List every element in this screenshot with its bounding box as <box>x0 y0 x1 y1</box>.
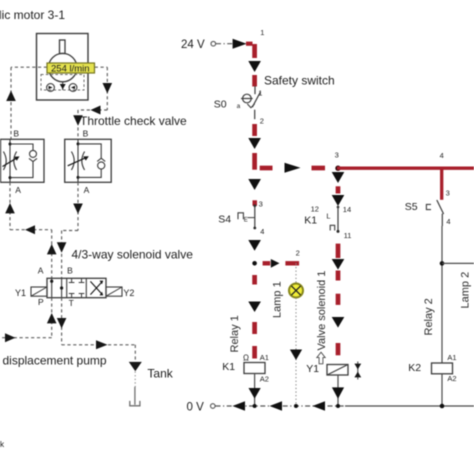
svg-text:Relay 2: Relay 2 <box>423 298 435 335</box>
energized wire S0 to junction <box>252 124 257 170</box>
4/3 valve center position blocked ports <box>69 278 85 297</box>
rotated label Relay 1 <box>229 315 241 352</box>
svg-text:2: 2 <box>296 249 300 258</box>
wire lamp 1 to 0V bus <box>295 298 297 406</box>
energized wire S4 to junction 2 <box>248 240 261 251</box>
wire right valve A down <box>77 182 79 230</box>
indicator lamp 1 <box>289 284 303 298</box>
text Safety switch <box>264 73 335 87</box>
emergency stop switch S0 <box>241 86 260 119</box>
hydraulic motor drain box <box>41 75 84 91</box>
svg-text:L: L <box>326 212 330 221</box>
flow arrow down below lamp 1 <box>290 350 302 361</box>
svg-text:T: T <box>69 298 74 308</box>
flow arrow up on left motor line <box>6 91 16 101</box>
flow arrow down on B riser <box>57 242 67 252</box>
svg-text:S4: S4 <box>218 214 231 226</box>
svg-text:4: 4 <box>446 217 450 226</box>
svg-text:Lamp 2: Lamp 2 <box>459 272 471 309</box>
valve solenoid Y1 <box>327 365 348 376</box>
energized branch wire to lamp 1 <box>263 261 300 265</box>
4/3 valve right position crossed arrows <box>90 281 103 296</box>
flow arrow down on right bypass <box>103 83 113 93</box>
text displacement pump <box>3 354 107 368</box>
flow arrow right toward tank <box>96 340 108 349</box>
wire left valve A down <box>9 182 11 229</box>
throttle check valve V1 flow line <box>9 139 12 182</box>
flow arrow down into right throttle valve <box>73 115 83 125</box>
current arrows left on 0V bus <box>233 401 326 411</box>
hydraulic motor shaft <box>60 40 66 54</box>
wire 24V terminal to node 1 <box>216 43 247 45</box>
S4 actuator mark <box>238 213 248 224</box>
flow arrow down below K1 <box>249 388 261 399</box>
wire P port to pump <box>0 298 52 338</box>
junction node below S4 <box>252 261 257 266</box>
wire down to 4/3 valve A <box>51 230 53 279</box>
rotated label Valve solenoid 1 <box>316 271 328 351</box>
throttle check valve V1 throttle arcs <box>3 152 16 171</box>
relay coil K2 <box>432 363 453 374</box>
svg-text:254 l/min: 254 l/min <box>51 64 90 75</box>
throttle check valve V2 label A <box>84 185 90 195</box>
wire Y1 to 0V bus <box>337 375 339 406</box>
Y1 armature link symbol <box>354 362 361 380</box>
current arrow right on lamp branch <box>271 259 280 268</box>
energized wire K1 contact to Y1 <box>336 244 341 356</box>
svg-text:P: P <box>38 297 44 307</box>
svg-text:Y1: Y1 <box>306 363 319 375</box>
wire K2 coil to 0V bus <box>441 374 443 406</box>
relay changeover contact K1 <box>330 206 339 233</box>
flow arrow left on corner segment <box>91 106 101 115</box>
pushbutton S5 open contact <box>405 189 451 226</box>
svg-text:24 V: 24 V <box>181 39 205 51</box>
svg-text:E: E <box>244 218 248 224</box>
svg-text:S0: S0 <box>214 99 227 111</box>
flow meter display 254 l/min <box>47 63 95 75</box>
wire junction to lamp 1 <box>295 263 297 283</box>
wire branch to lamp 2 <box>442 262 474 264</box>
svg-text:Tank: Tank <box>147 367 173 381</box>
energized wire junction to S4 <box>248 179 261 206</box>
energized rail node3 to right edge <box>337 166 474 169</box>
flow arrow down below S0 <box>248 138 261 149</box>
K2 coil labels <box>408 353 456 383</box>
4/3 way valve body <box>47 278 106 297</box>
solenoid Y2 symbol on valve <box>106 287 122 296</box>
flow arrow down on T riser <box>57 318 67 328</box>
flow arrow right from pump <box>5 333 15 342</box>
wire T port to tank <box>62 298 136 362</box>
wire motor left port to left throttle valve <box>11 67 47 139</box>
svg-text:K1: K1 <box>222 361 235 373</box>
flow arrow left on A corner <box>25 225 35 234</box>
svg-text:A: A <box>38 266 44 276</box>
throttle check valve V1 adjust arrow <box>3 156 20 166</box>
tank drop wire <box>134 372 136 405</box>
rotated label Lamp 1 <box>272 281 284 318</box>
current arrow right on branch <box>285 163 301 173</box>
svg-text:Lamp 1: Lamp 1 <box>272 281 284 318</box>
0V supply terminal <box>187 401 216 413</box>
svg-text:Ω: Ω <box>243 353 249 362</box>
svg-text:B: B <box>67 266 73 276</box>
motor makeup check valve left <box>47 84 55 92</box>
relay coil K1 <box>243 353 265 373</box>
hydraulic motor M1 frame <box>37 34 89 101</box>
4/3 valve left position flow paths <box>50 278 63 297</box>
svg-text:Valve solenoid 1: Valve solenoid 1 <box>316 271 328 351</box>
svg-text:11: 11 <box>344 231 352 240</box>
energized wire node 3 to K1 contact <box>332 172 345 206</box>
limit switch S4 closed contact <box>248 204 257 229</box>
throttle check valve V1 check branch <box>10 144 37 178</box>
text 4/3-way solenoid valve <box>72 248 194 262</box>
link arrow above Y1 <box>317 352 325 364</box>
svg-text:B: B <box>13 128 19 138</box>
node 3 <box>335 151 341 171</box>
red corner dash at node 1 <box>246 42 253 46</box>
svg-text:Safety switch: Safety switch <box>264 73 335 87</box>
wire corner to valve port A <box>10 229 52 231</box>
throttle check valve V2 flow line <box>77 139 80 182</box>
24V supply terminal <box>181 39 216 51</box>
svg-text:1: 1 <box>260 28 264 37</box>
throttle check valve V2 throttle arcs <box>71 152 84 171</box>
node at lamp 2 branch <box>440 261 445 266</box>
hydraulic motor circle <box>49 53 77 81</box>
energized branch wire to node 3 <box>260 166 325 171</box>
tank symbol <box>130 401 140 406</box>
K1 contact labels <box>304 204 351 240</box>
bus junction nodes <box>253 404 445 409</box>
svg-text:12: 12 <box>311 204 319 213</box>
svg-text:lic motor 3-1: lic motor 3-1 <box>0 8 65 22</box>
0V bus wire left part <box>216 405 346 407</box>
energized drop node4 to S5 <box>440 168 443 200</box>
flow arrow down above S0 <box>248 61 261 72</box>
svg-text:Y2: Y2 <box>123 288 134 298</box>
svg-text:a: a <box>237 103 241 110</box>
wire down to 4/3 valve B <box>61 231 63 279</box>
flow arrow up on P riser <box>47 313 57 323</box>
flow arrow up on A riser <box>47 244 57 254</box>
svg-text:A: A <box>15 185 21 195</box>
wire motor right port to corner <box>95 67 108 110</box>
svg-text:K2: K2 <box>408 362 421 374</box>
throttle check valve V2 check branch <box>78 144 105 178</box>
wire K1 coil to 0V bus <box>254 374 256 407</box>
svg-text:displacement pump: displacement pump <box>3 354 107 368</box>
svg-text:3: 3 <box>259 199 263 208</box>
throttle check valve V2 label B <box>83 128 89 138</box>
svg-text:4/3-way solenoid valve: 4/3-way solenoid valve <box>72 248 194 262</box>
flow arrow down into tank <box>129 362 142 371</box>
svg-text:Y1: Y1 <box>15 288 26 298</box>
K1 coil labels <box>222 353 269 384</box>
throttle check valve V1 label A <box>15 185 21 195</box>
svg-text:A2: A2 <box>260 374 269 383</box>
svg-text:3: 3 <box>446 189 450 198</box>
wire corner to valve port B <box>62 230 78 232</box>
svg-text:1: 1 <box>258 89 262 98</box>
0V bus wire right part <box>345 405 474 407</box>
flow arrow down below right valve <box>73 204 83 214</box>
svg-text:A2: A2 <box>447 374 456 383</box>
svg-text:Relay 1: Relay 1 <box>229 315 241 352</box>
svg-text:B: B <box>83 128 89 138</box>
svg-text:4: 4 <box>260 227 264 236</box>
svg-text:3: 3 <box>335 151 339 160</box>
wire label 2 <box>296 249 300 258</box>
svg-text:A: A <box>84 185 90 195</box>
flow arrows down on Y1 branch <box>332 259 345 328</box>
svg-text:A1: A1 <box>447 353 456 362</box>
throttle check valve V1 body <box>1 139 45 182</box>
node 1 label <box>260 28 264 37</box>
flow arrow up below left valve <box>5 203 15 213</box>
title text hydraulic motor 3-1 <box>0 8 65 22</box>
throttle check valve V2 adjust arrow <box>68 156 89 166</box>
label Y1 hydraulic <box>15 288 26 298</box>
rotated label Relay 2 <box>423 298 435 335</box>
solenoid Y1 symbol on valve <box>31 287 47 296</box>
status bar fragment text <box>0 439 5 449</box>
wire S5 to K2 coil <box>441 226 443 363</box>
text Tank <box>147 367 173 381</box>
label Y1 electrical <box>306 363 319 375</box>
svg-text:S5: S5 <box>405 201 418 213</box>
motor makeup check valve right <box>69 84 77 92</box>
rotated label Lamp 2 <box>459 272 471 309</box>
label Y2 hydraulic <box>123 288 134 298</box>
current arrow right at 24V <box>233 39 247 49</box>
svg-text:2: 2 <box>260 117 264 126</box>
flow arrow down below Y1 <box>332 387 344 398</box>
svg-text:0 V: 0 V <box>187 401 205 413</box>
S0 labels <box>214 89 264 126</box>
4/3 valve port labels <box>38 266 74 308</box>
wire corner to right throttle valve <box>78 110 107 139</box>
text throttle check valve <box>80 114 187 128</box>
svg-text:4: 4 <box>440 151 444 160</box>
svg-text:14: 14 <box>343 205 351 214</box>
throttle check valve V2 body <box>65 139 112 182</box>
svg-text:Throttle check valve: Throttle check valve <box>80 114 187 128</box>
flow arrow down on relay 1 branch <box>248 302 261 313</box>
motor drain stub <box>60 82 66 90</box>
svg-text:K1: K1 <box>304 215 317 227</box>
throttle check valve V1 label B <box>13 128 19 138</box>
energized wire node1 to S0 <box>252 44 257 87</box>
energized wire relay 1 branch <box>252 275 257 359</box>
S4 labels <box>218 199 264 236</box>
svg-text:A1: A1 <box>260 353 269 362</box>
node 4 label <box>440 151 444 160</box>
